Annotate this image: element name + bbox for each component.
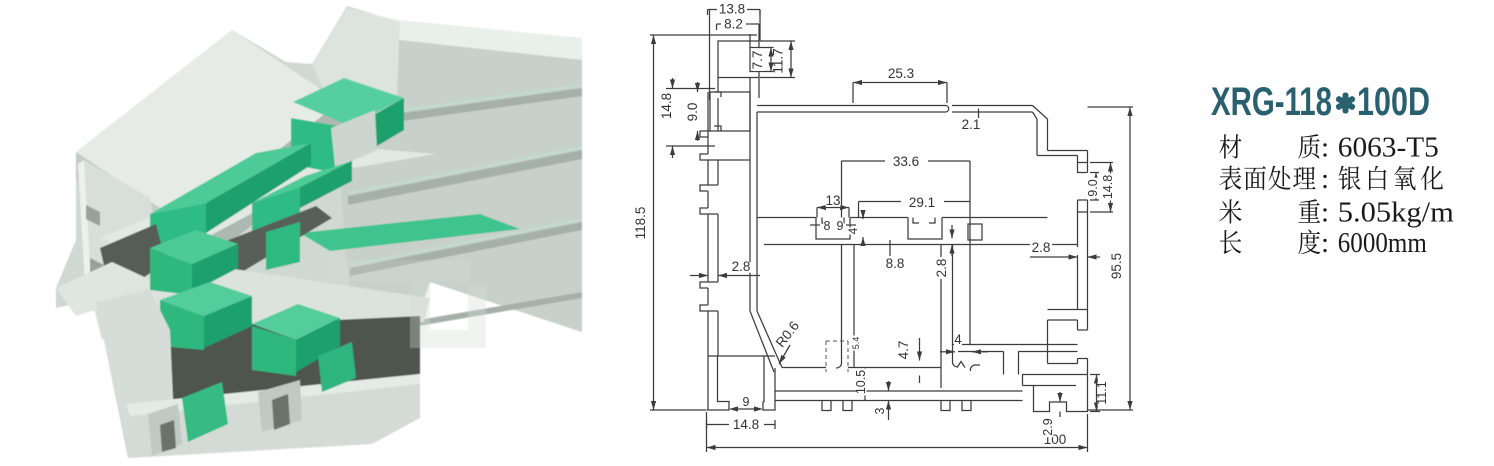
svg-text::: : bbox=[1321, 227, 1329, 259]
svg-text:8.8: 8.8 bbox=[886, 256, 905, 271]
svg-text:7.7: 7.7 bbox=[750, 51, 765, 70]
svg-text:14.8: 14.8 bbox=[1101, 175, 1115, 199]
svg-text:11.7: 11.7 bbox=[771, 48, 786, 73]
svg-text::: : bbox=[1321, 197, 1329, 229]
svg-text:9.0: 9.0 bbox=[685, 103, 700, 122]
svg-text:5.4: 5.4 bbox=[851, 337, 861, 350]
svg-text:13.8: 13.8 bbox=[719, 2, 745, 17]
svg-text:95.5: 95.5 bbox=[1109, 253, 1124, 279]
svg-text:25.3: 25.3 bbox=[888, 66, 914, 81]
svg-text:33.6: 33.6 bbox=[893, 154, 919, 169]
svg-text:9.0: 9.0 bbox=[1086, 179, 1100, 196]
svg-text:4: 4 bbox=[954, 332, 962, 347]
svg-text:9: 9 bbox=[743, 395, 750, 409]
svg-text::: : bbox=[1321, 163, 1329, 195]
svg-text:13: 13 bbox=[825, 193, 840, 208]
svg-text:6000mm: 6000mm bbox=[1338, 227, 1427, 259]
svg-text:4.7: 4.7 bbox=[896, 341, 911, 360]
svg-text:14.8: 14.8 bbox=[733, 417, 759, 432]
svg-text:29.1: 29.1 bbox=[909, 195, 935, 210]
svg-text:2.8: 2.8 bbox=[1032, 240, 1051, 255]
svg-text:3: 3 bbox=[873, 407, 887, 414]
svg-text:2.8: 2.8 bbox=[934, 259, 949, 278]
svg-text:10.5: 10.5 bbox=[854, 370, 868, 394]
svg-text:6063-T5: 6063-T5 bbox=[1338, 132, 1439, 164]
svg-text:R0.6: R0.6 bbox=[773, 318, 802, 350]
svg-text:8.2: 8.2 bbox=[724, 17, 743, 32]
svg-text:11.1: 11.1 bbox=[1095, 381, 1109, 404]
svg-text:XRG-118: XRG-118 bbox=[1211, 80, 1332, 124]
svg-text:4: 4 bbox=[846, 227, 860, 234]
svg-text:2.1: 2.1 bbox=[962, 117, 981, 132]
svg-text:8: 8 bbox=[824, 219, 831, 233]
svg-text:9: 9 bbox=[837, 219, 844, 233]
svg-text:5.05kg/m: 5.05kg/m bbox=[1338, 197, 1454, 229]
svg-text:14.8: 14.8 bbox=[659, 93, 674, 119]
svg-text:118.5: 118.5 bbox=[633, 207, 648, 240]
svg-text::: : bbox=[1321, 132, 1329, 164]
svg-text:100D: 100D bbox=[1357, 80, 1430, 124]
svg-text:2.9: 2.9 bbox=[1041, 418, 1055, 435]
svg-text:2.8: 2.8 bbox=[732, 259, 751, 274]
